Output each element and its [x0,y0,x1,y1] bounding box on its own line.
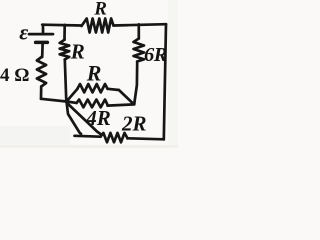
node B junction blob [132,102,136,106]
wire: diagonal down to node B [119,90,133,104]
wire: top rail left segment [42,23,81,26]
battery emf source: long plate [29,33,53,36]
resistor 4 ohm (left vertical) [37,57,46,87]
wire: right vertical [164,24,166,139]
resistor 6R (right vertical) [134,39,145,62]
svg-text:6R: 6R [144,44,167,66]
wire: R middle right lead [108,89,119,90]
wire: bottom rail left stub [75,134,101,138]
wire: vertical R branch top lead [63,25,66,40]
svg-text:R: R [86,60,102,85]
resistor R (top) [82,19,114,33]
svg-text:R: R [93,0,107,20]
wire: battery bottom lead [41,44,44,57]
svg-text:4R: 4R [85,106,111,130]
wire: vertical R branch bottom lead to node A [65,60,67,102]
node A junction [65,100,68,103]
wire: steep diagonal node A to bottom rail [67,102,82,134]
wire: top rail right segment [114,24,167,25]
battery emf source: short plate [36,41,48,45]
wire: bottom-left horizontal to node A [41,99,67,102]
wire: 6R branch top lead [137,24,140,38]
svg-text:ε: ε [19,20,28,45]
resistor R (middle horizontal) [78,84,108,92]
svg-text:2R: 2R [121,111,147,135]
wire: node A to 4R left end [67,102,77,103]
wire: 6R branch bottom lead [134,62,137,105]
wire: left branch bottom lead [40,87,43,99]
wire: bottom rail right segment [128,138,164,139]
resistor 2R (bottom horizontal) [101,133,128,142]
svg-text:R: R [70,40,85,64]
svg-text:4 Ω: 4 Ω [0,65,29,86]
wire: diagonal node A up to resistor R middle [67,89,78,102]
wire: shallow diagonal node A to 2R [67,103,101,134]
resistor R (left middle vertical) [60,40,69,60]
wire: battery top lead [42,25,45,33]
wire: 4R right lead to node B [108,104,135,105]
resistor 4R (lower middle horizontal) [77,100,108,108]
